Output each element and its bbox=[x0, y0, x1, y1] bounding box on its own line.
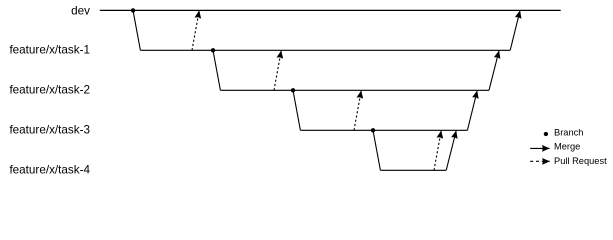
svg-text:Pull Request: Pull Request bbox=[554, 156, 607, 166]
wire branch-off task-3 to task-4 bbox=[373, 130, 380, 170]
svg-text:dev: dev bbox=[71, 4, 90, 17]
node branch point on task-3 bbox=[371, 128, 375, 132]
node branch point on task-2 bbox=[291, 88, 295, 92]
pull request arrow task-1 to dev bbox=[192, 11, 199, 51]
svg-text:feature/x/task-3: feature/x/task-3 bbox=[9, 124, 90, 137]
wire branch-off task-2 to task-3 bbox=[293, 90, 300, 130]
legend pull request arrow bbox=[530, 160, 550, 162]
pull request arrow task-2 to task-1 bbox=[274, 51, 281, 91]
merge arrow task-3 into task-2 bbox=[467, 91, 477, 131]
svg-text:Branch: Branch bbox=[554, 128, 583, 138]
legend branch dot bbox=[544, 132, 548, 136]
svg-text:feature/x/task-1: feature/x/task-1 bbox=[9, 44, 90, 57]
svg-text:feature/x/task-2: feature/x/task-2 bbox=[9, 84, 90, 97]
wire dev branch line bbox=[100, 9, 561, 11]
merge arrow task-2 into task-1 bbox=[489, 51, 499, 91]
pull request arrow task-4 to task-3 bbox=[434, 131, 441, 171]
wire feature/x/task-1 branch line bbox=[140, 49, 510, 51]
svg-text:Merge: Merge bbox=[554, 141, 580, 151]
merge arrow task-4 into task-3 bbox=[446, 131, 456, 171]
wire feature/x/task-4 branch line bbox=[380, 169, 446, 171]
node branch point on task-1 bbox=[211, 48, 215, 52]
wire feature/x/task-3 branch line bbox=[300, 129, 467, 131]
wire branch-off task-1 to task-2 bbox=[213, 50, 220, 90]
merge arrow task-1 into dev bbox=[510, 11, 520, 51]
wire branch-off dev to task-1 bbox=[133, 10, 140, 50]
wire feature/x/task-2 branch line bbox=[220, 89, 489, 91]
node branch point on dev bbox=[131, 8, 135, 12]
svg-text:feature/x/task-4: feature/x/task-4 bbox=[9, 164, 90, 177]
legend merge arrow bbox=[530, 147, 549, 149]
pull request arrow task-3 to task-2 bbox=[354, 91, 361, 131]
